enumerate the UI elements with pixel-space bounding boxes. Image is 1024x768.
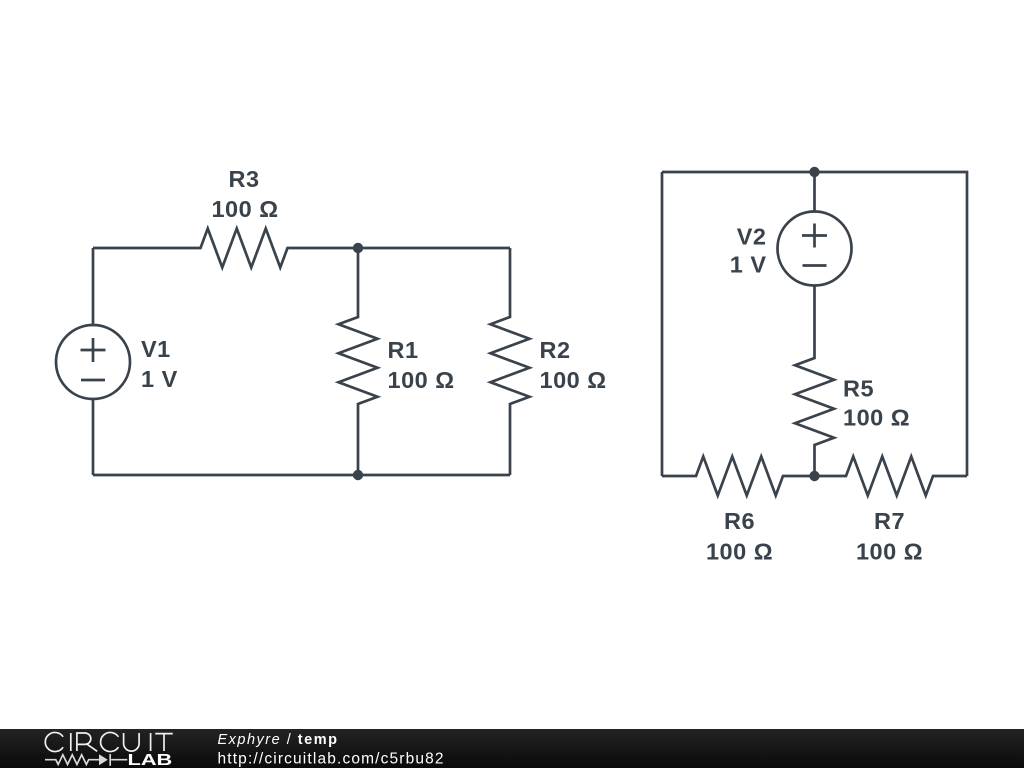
svg-text:Exphyre / temp: Exphyre / temp	[218, 732, 339, 748]
svg-text:http://circuitlab.com/c5rbu82: http://circuitlab.com/c5rbu82	[218, 751, 445, 768]
svg-text:LAB: LAB	[128, 752, 173, 768]
